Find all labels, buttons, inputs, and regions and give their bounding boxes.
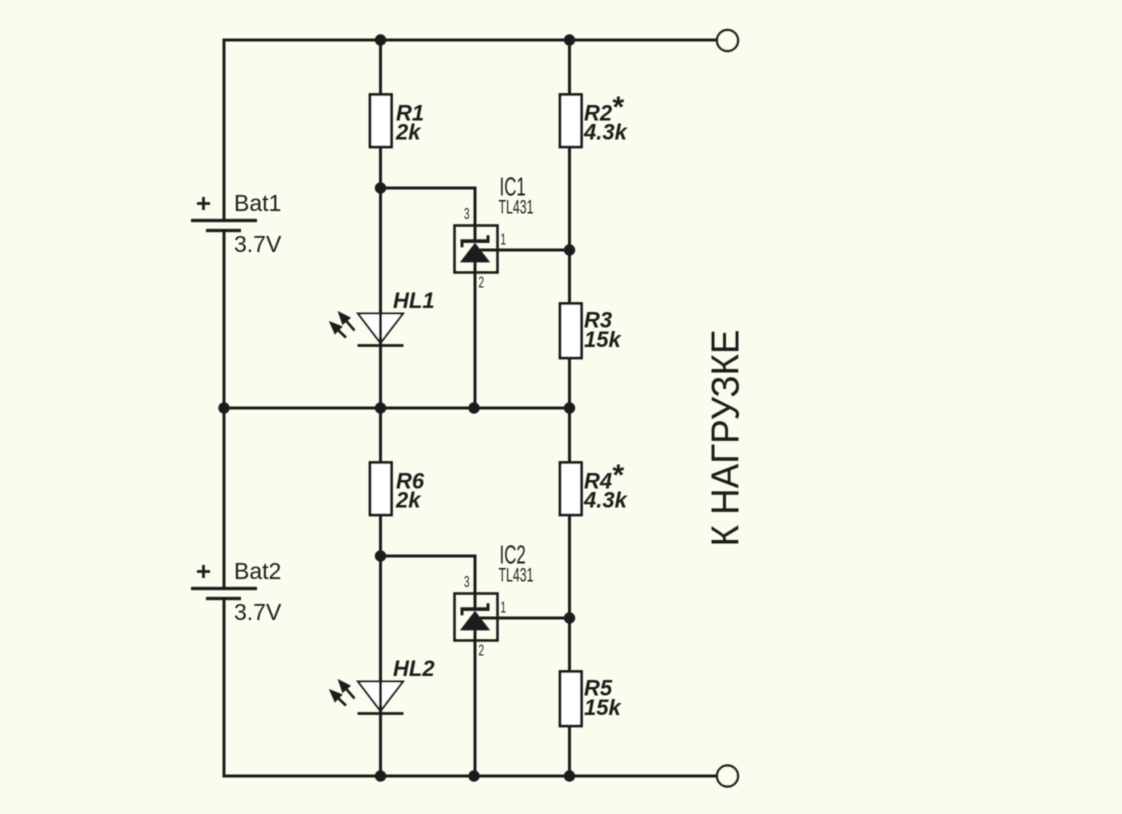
- wire IC1 cathode pin1 to divider: [480, 249, 570, 252]
- wire node B to IC2 reference: [381, 556, 476, 609]
- node junction bottom bus R5: [564, 770, 575, 781]
- svg-text:TL431: TL431: [499, 565, 534, 586]
- wire R2 R3 column: [568, 40, 571, 408]
- wire mid bus: [224, 407, 570, 410]
- svg-text:2k: 2k: [395, 120, 422, 145]
- svg-text:HL1: HL1: [393, 288, 435, 313]
- resistor R3: [560, 304, 622, 359]
- wire battery column Bat1 upper: [223, 39, 226, 221]
- node junction top bus R2: [564, 34, 575, 45]
- svg-text:4.3k: 4.3k: [583, 120, 629, 145]
- terminal output negative: [717, 766, 738, 787]
- svg-text:4.3k: 4.3k: [583, 488, 629, 513]
- resistor R6: [370, 463, 425, 516]
- node junction mid bus R3: [564, 402, 575, 413]
- resistor R4: [560, 459, 629, 515]
- LED HL1: [330, 288, 434, 346]
- op-amp U1 shunt regulator IC1 TL431: [455, 172, 534, 291]
- wire LED2 cathode to bottom bus: [379, 714, 382, 776]
- resistor R1: [370, 95, 424, 148]
- svg-text:3.7V: 3.7V: [234, 231, 282, 257]
- resistor R5: [560, 672, 622, 727]
- wire battery column Bat2 lower to bottom bus: [223, 599, 226, 778]
- node B R6 LED2 IC2: [375, 550, 386, 561]
- node junction mid bus LED1: [375, 402, 386, 413]
- svg-text:3: 3: [464, 205, 470, 223]
- wire IC2 cathode pin1 to divider: [480, 617, 570, 620]
- wire bottom bus: [224, 775, 717, 778]
- wire node A to IC1 reference: [381, 188, 476, 241]
- wire battery column Bat2 upper: [223, 408, 226, 589]
- wire IC2 anode down to bottom bus: [474, 630, 477, 776]
- svg-text:2k: 2k: [395, 488, 422, 513]
- node junction mid bus battery: [218, 402, 229, 413]
- op-amp U2 shunt regulator IC2 TL431: [455, 540, 534, 659]
- node A R1 LED1 IC1: [375, 182, 386, 193]
- LED HL2: [330, 656, 435, 714]
- wire IC1 anode down to mid bus: [474, 262, 477, 408]
- svg-text:2: 2: [479, 273, 485, 291]
- svg-text:1: 1: [501, 230, 507, 248]
- terminal output positive: [717, 30, 738, 51]
- wire LED1 cathode to mid bus: [379, 346, 382, 408]
- wire R1 LED1 column: [379, 40, 382, 346]
- svg-text:2: 2: [479, 641, 485, 659]
- svg-text:TL431: TL431: [499, 197, 534, 218]
- svg-text:3: 3: [464, 573, 470, 591]
- node junction IC1 pin1 divider: [564, 244, 575, 255]
- svg-text:К НАГРУЗКЕ: К НАГРУЗКЕ: [705, 330, 748, 547]
- svg-text:Bat1: Bat1: [234, 190, 281, 216]
- wire battery column Bat1 lower to mid bus: [223, 231, 226, 409]
- node junction top bus R1: [375, 34, 386, 45]
- svg-text:1: 1: [501, 598, 507, 616]
- battery Bat2: [191, 558, 282, 625]
- resistor R2: [560, 91, 629, 147]
- svg-text:HL2: HL2: [393, 656, 435, 681]
- node junction IC2 pin1 divider: [564, 612, 575, 623]
- svg-text:15k: 15k: [584, 695, 622, 720]
- svg-text:15k: 15k: [584, 327, 622, 352]
- svg-text:Bat2: Bat2: [234, 558, 281, 584]
- node junction bottom bus LED2: [375, 770, 386, 781]
- node junction bottom bus IC2: [468, 770, 479, 781]
- node junction mid bus IC1: [468, 402, 479, 413]
- wire R6 LED2 column: [379, 408, 382, 714]
- wire top bus: [224, 39, 717, 42]
- battery Bat1: [191, 190, 282, 257]
- wire R4 R5 column: [568, 408, 571, 776]
- svg-text:3.7V: 3.7V: [234, 599, 282, 625]
